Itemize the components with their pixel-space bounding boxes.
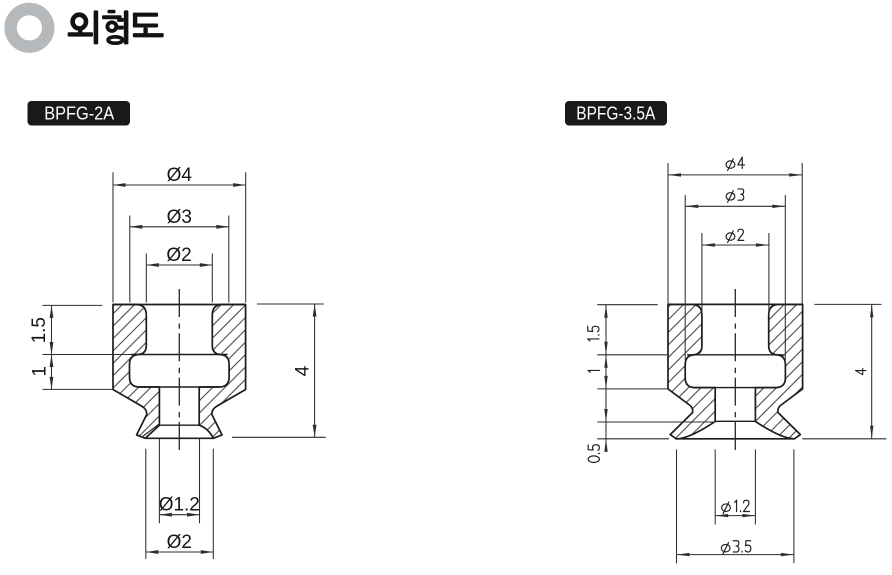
svg-text:Ø2: Ø2 (167, 532, 192, 553)
svg-text:Ø2: Ø2 (166, 245, 191, 266)
svg-text:Ø3: Ø3 (167, 207, 192, 228)
svg-text:BPFG-2A: BPFG-2A (44, 102, 115, 123)
svg-text:4: 4 (292, 365, 313, 376)
svg-text:1: 1 (30, 366, 51, 377)
svg-text:BPFG-3.5A: BPFG-3.5A (576, 102, 656, 123)
svg-text:Ø1.2: Ø1.2 (159, 495, 200, 516)
svg-text:1.5: 1.5 (29, 317, 50, 343)
svg-text:Ø4: Ø4 (167, 165, 193, 186)
